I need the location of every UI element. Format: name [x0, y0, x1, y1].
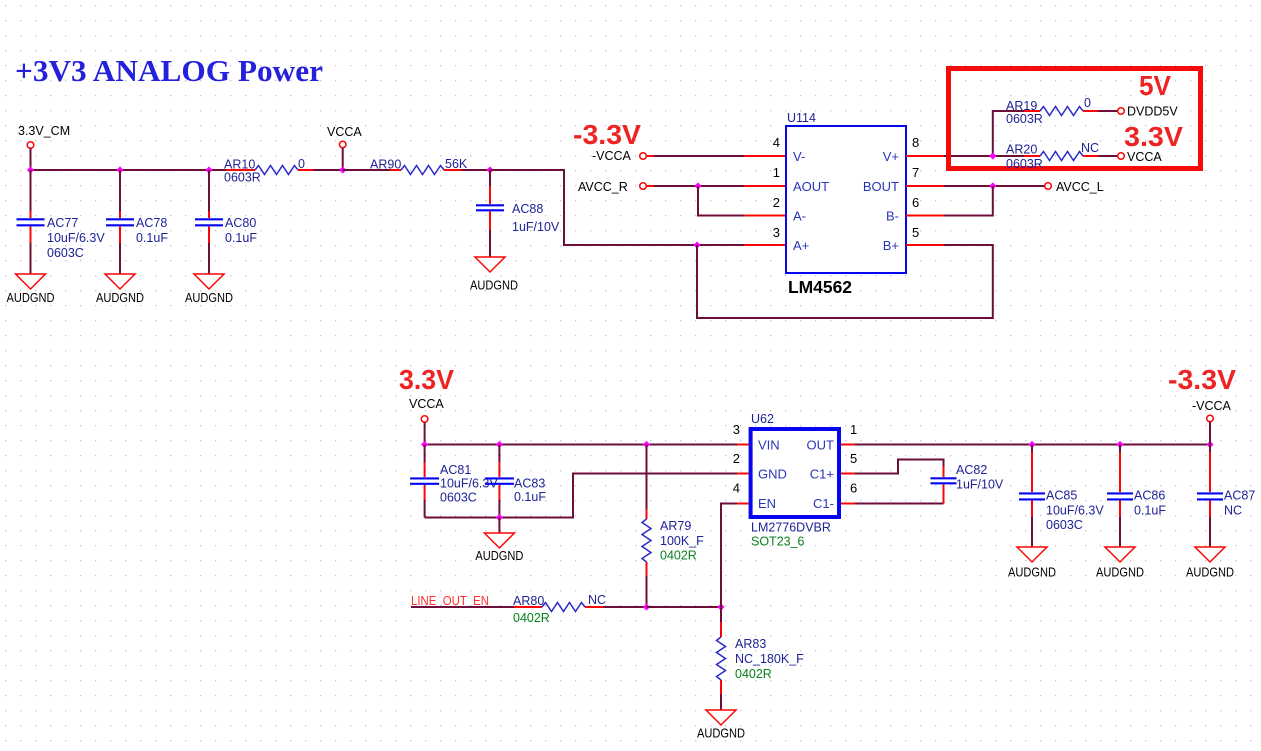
ground AUDGND under AC77 — [7, 274, 55, 305]
svg-text:AR79: AR79 — [660, 519, 691, 533]
svg-text:SOT23_6: SOT23_6 — [751, 535, 805, 549]
ground AUDGND under AC86 — [1096, 547, 1144, 580]
resistor AR10 0 ohm — [224, 157, 313, 185]
svg-text:0402R: 0402R — [513, 611, 550, 625]
junction top bus at AC77 — [27, 166, 34, 173]
wire C1- pin lead — [841, 503, 855, 505]
svg-text:LM4562: LM4562 — [788, 277, 852, 297]
junction bus at AC86 — [1116, 441, 1123, 448]
svg-text:LINE_OUT_EN: LINE_OUT_EN — [411, 594, 489, 608]
svg-text:OUT: OUT — [807, 438, 835, 453]
wire B- pin lead — [906, 215, 944, 217]
wire AR10 to VCCA — [313, 169, 343, 171]
svg-text:V+: V+ — [883, 149, 899, 164]
junction at AC88 — [486, 166, 493, 173]
svg-text:6: 6 — [912, 195, 919, 210]
svg-text:0603R: 0603R — [1006, 112, 1043, 126]
capacitor AC77 — [17, 170, 106, 274]
svg-text:10uF/6.3V: 10uF/6.3V — [1046, 504, 1104, 518]
wire cap bottoms to GND pin — [425, 474, 737, 518]
svg-text:4: 4 — [773, 135, 780, 150]
capacitor AC87 — [1197, 445, 1255, 548]
op-amp U114 LM4562 — [786, 111, 906, 273]
svg-text:3: 3 — [773, 225, 780, 240]
capacitor AC82 — [931, 463, 1004, 492]
ground AUDGND under AC87 — [1186, 547, 1234, 580]
svg-text:10uF/6.3V: 10uF/6.3V — [47, 231, 105, 245]
wire B+ to A+ loop — [697, 245, 993, 318]
wire AR90 to AC88 node — [461, 169, 490, 171]
resistor AR90 56K — [370, 157, 468, 175]
svg-text:EN: EN — [758, 496, 776, 511]
junction top bus at AC80 — [205, 166, 212, 173]
svg-text:+3V3 ANALOG Power: +3V3 ANALOG Power — [15, 53, 323, 88]
wire -VCCA bus right — [1032, 444, 1210, 446]
wire bottom bus VCCA to VIN — [425, 444, 737, 446]
svg-text:0: 0 — [298, 157, 305, 171]
svg-text:0.1uF: 0.1uF — [136, 231, 168, 245]
svg-text:AC77: AC77 — [47, 216, 78, 230]
ground AUDGND under AR83 — [697, 710, 745, 741]
wire BOUT pin lead — [906, 185, 944, 187]
svg-text:5: 5 — [912, 225, 919, 240]
svg-text:-3.3V: -3.3V — [1168, 364, 1236, 395]
ground AUDGND under AC85 — [1008, 547, 1056, 580]
resistor AR79 100K_F — [642, 445, 704, 608]
wire C1+ pin lead — [841, 473, 855, 475]
svg-text:3.3V: 3.3V — [1124, 121, 1183, 152]
svg-text:AC88: AC88 — [512, 202, 543, 216]
svg-text:NC: NC — [1081, 141, 1099, 155]
wire BOUT to AVCC_L — [944, 185, 1045, 187]
wire AOUT to A- feedback — [698, 186, 744, 216]
wire AR79 node to EN node — [647, 606, 722, 608]
svg-text:AUDGND: AUDGND — [475, 548, 523, 563]
capacitor AC86 — [1107, 445, 1166, 548]
port DVDD5V — [1118, 105, 1179, 119]
wire V- pin lead — [744, 155, 786, 157]
svg-text:U114: U114 — [787, 111, 816, 125]
svg-text:AUDGND: AUDGND — [697, 726, 745, 741]
svg-text:AR10: AR10 — [224, 158, 255, 172]
svg-text:0: 0 — [1084, 96, 1091, 110]
junction bus at AC83 — [496, 441, 503, 448]
svg-text:AR80: AR80 — [513, 594, 544, 608]
svg-text:0.1uF: 0.1uF — [1134, 504, 1166, 518]
svg-text:0603C: 0603C — [440, 491, 477, 505]
svg-text:0.1uF: 0.1uF — [225, 231, 257, 245]
port 3.3V_CM — [27, 142, 34, 149]
wire VIN pin lead — [737, 444, 749, 446]
svg-text:5V: 5V — [1139, 70, 1171, 101]
svg-text:1: 1 — [773, 165, 780, 180]
svg-text:AUDGND: AUDGND — [470, 278, 518, 293]
capacitor AC78 — [106, 170, 168, 274]
junction AOUT feedback — [694, 182, 701, 189]
resistor AR19 0 ohm — [1006, 96, 1098, 126]
svg-text:AUDGND: AUDGND — [96, 290, 144, 305]
junction EN node — [717, 603, 724, 610]
svg-text:0603C: 0603C — [47, 246, 84, 260]
junction bus at AC87 — [1206, 441, 1213, 448]
svg-text:AC78: AC78 — [136, 216, 167, 230]
wire AR20 to VCCA out — [1098, 155, 1118, 157]
svg-text:AC83: AC83 — [514, 477, 545, 491]
svg-text:AUDGND: AUDGND — [1186, 565, 1234, 580]
wire LINE_OUT_EN to AR80 — [411, 606, 514, 608]
svg-text:NC: NC — [588, 593, 606, 607]
svg-text:NC: NC — [1224, 504, 1242, 518]
wire AOUT pin lead — [744, 185, 786, 187]
svg-text:BOUT: BOUT — [863, 179, 899, 194]
junction BOUT node — [989, 182, 996, 189]
wire -VCCA to V- pin — [654, 155, 744, 157]
wire OUT pin lead — [841, 444, 855, 446]
wire EN node up to EN pin — [721, 504, 737, 608]
wire AC82 top lead — [943, 466, 945, 477]
svg-text:8: 8 — [912, 135, 919, 150]
svg-text:0402R: 0402R — [735, 667, 772, 681]
svg-text:1: 1 — [850, 422, 857, 437]
junction at VCCA — [339, 166, 346, 173]
svg-text:3: 3 — [733, 422, 740, 437]
svg-text:VIN: VIN — [758, 438, 780, 453]
svg-text:AC87: AC87 — [1224, 489, 1255, 503]
svg-text:VCCA: VCCA — [1127, 150, 1162, 164]
svg-text:3.3V_CM: 3.3V_CM — [18, 124, 70, 138]
svg-text:6: 6 — [850, 481, 857, 496]
svg-text:-3.3V: -3.3V — [573, 119, 641, 150]
svg-text:0603R: 0603R — [224, 171, 261, 185]
svg-text:AUDGND: AUDGND — [7, 290, 55, 305]
wire OUT to -VCCA bus — [855, 444, 1032, 446]
capacitor AC83 — [485, 445, 546, 518]
svg-text:AC81: AC81 — [440, 463, 471, 477]
port AVCC_L — [1045, 180, 1104, 194]
wire V+ pin lead — [906, 155, 944, 157]
wire AVCC_R to AOUT — [654, 185, 744, 187]
wire A- pin lead — [744, 215, 786, 217]
svg-text:5: 5 — [850, 451, 857, 466]
red box 5V / 3.3V — [949, 69, 1201, 169]
svg-text:B+: B+ — [883, 238, 899, 253]
wire GND pin lead — [737, 473, 749, 475]
svg-text:C1-: C1- — [813, 496, 834, 511]
svg-text:B-: B- — [886, 209, 899, 224]
junction top bus at AC78 — [116, 166, 123, 173]
capacitor AC81 — [410, 445, 498, 518]
wire EN pin lead — [737, 503, 749, 505]
wire V+ to 5V node — [944, 155, 993, 157]
svg-text:AR20: AR20 — [1006, 143, 1037, 157]
svg-text:AVCC_L: AVCC_L — [1056, 180, 1104, 194]
svg-text:DVDD5V: DVDD5V — [1127, 105, 1178, 119]
svg-text:AR90: AR90 — [370, 158, 401, 172]
svg-text:VCCA: VCCA — [327, 125, 362, 139]
svg-text:AC85: AC85 — [1046, 489, 1077, 503]
svg-text:NC_180K_F: NC_180K_F — [735, 652, 804, 666]
svg-text:-VCCA: -VCCA — [1192, 399, 1232, 413]
resistor AR83 NC_180K_F — [717, 607, 805, 710]
svg-text:7: 7 — [912, 165, 919, 180]
wire top bus — [31, 169, 227, 171]
svg-text:56K: 56K — [445, 157, 468, 171]
wire VCCA to AR90 — [343, 169, 390, 171]
svg-text:AUDGND: AUDGND — [185, 290, 233, 305]
wire 3.3V_CM stub — [30, 148, 32, 170]
ground AUDGND under AC81 AC83 — [475, 533, 523, 563]
svg-text:3.3V: 3.3V — [399, 364, 454, 395]
svg-text:1uF/10V: 1uF/10V — [956, 478, 1004, 492]
resistor AR20 NC — [993, 141, 1099, 171]
svg-text:AVCC_R: AVCC_R — [578, 180, 628, 194]
svg-text:LM2776DVBR: LM2776DVBR — [751, 521, 831, 535]
wire AR80 to AR79 node — [603, 606, 647, 608]
svg-text:AR83: AR83 — [735, 637, 766, 651]
svg-text:0402R: 0402R — [660, 549, 697, 563]
svg-text:A+: A+ — [793, 238, 809, 253]
svg-text:0603C: 0603C — [1046, 518, 1083, 532]
net label -VCCA input — [592, 149, 654, 163]
capacitor AC88 — [476, 170, 560, 257]
resistor AR80 NC — [513, 593, 606, 625]
wire ground node stub — [498, 518, 500, 534]
wire V+ node up to AR19 — [993, 111, 1024, 156]
svg-text:2: 2 — [733, 451, 740, 466]
svg-text:1uF/10V: 1uF/10V — [512, 220, 560, 234]
ground AUDGND under AC80 — [185, 274, 233, 305]
wire AR19 to DVDD5V — [1098, 110, 1118, 112]
svg-text:AC86: AC86 — [1134, 489, 1165, 503]
svg-text:A-: A- — [793, 209, 806, 224]
ground AUDGND under AC88 — [470, 257, 518, 293]
svg-text:VCCA: VCCA — [409, 397, 444, 411]
svg-text:100K_F: 100K_F — [660, 534, 704, 548]
svg-text:AUDGND: AUDGND — [1096, 565, 1144, 580]
power port -VCCA bottom — [1192, 399, 1232, 445]
capacitor AC85 — [1019, 445, 1104, 548]
power port VCCA top — [327, 125, 362, 170]
wire AC82 to C1- — [855, 503, 944, 505]
svg-text:-VCCA: -VCCA — [592, 149, 632, 163]
svg-text:0603R: 0603R — [1006, 157, 1043, 171]
power port VCCA bottom — [409, 397, 444, 445]
wire AC88 node to A+ pin — [490, 170, 744, 245]
wire AC82 bottom lead — [943, 485, 945, 504]
svg-text:AC82: AC82 — [956, 463, 987, 477]
svg-text:AR19: AR19 — [1006, 99, 1037, 113]
charge pump U62 LM2776DVBR — [751, 412, 839, 517]
capacitor AC80 — [195, 170, 257, 274]
wire C1+ to AC82 top — [855, 460, 944, 474]
junction AR79 bottom — [643, 603, 650, 610]
svg-text:AUDGND: AUDGND — [1008, 565, 1056, 580]
svg-text:AC80: AC80 — [225, 216, 256, 230]
svg-text:AOUT: AOUT — [793, 179, 829, 194]
svg-text:V-: V- — [793, 149, 805, 164]
svg-text:C1+: C1+ — [810, 467, 834, 482]
junction bus at AR79 — [643, 441, 650, 448]
svg-text:0.1uF: 0.1uF — [514, 490, 546, 504]
wire BOUT to B- feedback — [944, 186, 993, 216]
junction ground node — [496, 514, 503, 521]
svg-text:4: 4 — [733, 481, 740, 496]
svg-text:2: 2 — [773, 195, 780, 210]
port VCCA right — [1118, 150, 1163, 164]
svg-text:U62: U62 — [751, 412, 774, 426]
junction bus at AC85 — [1028, 441, 1035, 448]
net label AVCC_R input — [578, 180, 654, 194]
junction V+ node — [989, 152, 996, 159]
wire B+ pin lead — [906, 244, 944, 246]
svg-text:GND: GND — [758, 467, 787, 482]
junction bus at AC81 — [421, 441, 428, 448]
junction at A+ — [693, 241, 700, 248]
ground AUDGND under AC78 — [96, 274, 144, 305]
wire A+ pin lead — [744, 244, 786, 246]
